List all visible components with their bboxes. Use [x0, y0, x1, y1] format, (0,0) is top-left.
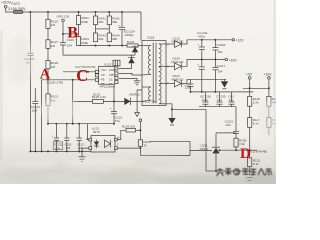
chassis ground filled triangle [224, 79, 226, 81]
wire C129 to bus55 [62, 45, 64, 55]
+15V terminal [225, 58, 228, 61]
resistor R201 [78, 12, 80, 16]
resistor R146 [267, 96, 271, 106]
node dot B area [62, 33, 64, 35]
svg-text:820k: 820k [81, 20, 88, 24]
IC U122 body [99, 66, 115, 84]
svg-text:MUR1C: MUR1C [130, 92, 142, 96]
wire R131 to ground [249, 167, 251, 175]
secondary tap wires [159, 43, 166, 45]
wire V121 anode down and right [216, 153, 250, 171]
svg-text:AZ431: AZ431 [200, 147, 209, 151]
svg-text:68k: 68k [112, 37, 117, 41]
wire bus to opto LED anode [88, 124, 89, 140]
wire feedback down [205, 109, 207, 171]
wire D122 top to bus55 [131, 55, 133, 57]
svg-text:D122: D122 [93, 92, 101, 96]
crystal part above IC [113, 60, 120, 66]
wire top bus down to transformer primary [140, 12, 142, 41]
wire x72.7 down from A line [72, 80, 74, 124]
divider rail x249.7 [249, 79, 251, 96]
wire R129 down to lower bus [139, 146, 141, 155]
svg-text:1M: 1M [51, 23, 56, 27]
svg-text:104: 104 [32, 108, 37, 112]
svg-text:104: 104 [226, 123, 231, 127]
IC right pin boxes [115, 67, 118, 70]
watermark toutiao vector glyphs [217, 168, 273, 177]
svg-text:+15V: +15V [229, 58, 238, 62]
dots on rail lines [190, 39, 217, 93]
lower feedback bus [140, 155, 190, 157]
resistor R121 on primary feed [127, 44, 138, 47]
dot aux [171, 108, 173, 110]
capacitor EC122 47u [111, 111, 117, 113]
svg-text:C1217: C1217 [216, 64, 225, 68]
svg-text:D: D [240, 146, 251, 162]
input terminal P1 [4, 6, 7, 9]
D area bus [219, 149, 257, 151]
svg-text:68k: 68k [98, 20, 103, 24]
dots on bus y123.7 [47, 123, 115, 125]
wire bus to EC128 [29, 12, 31, 53]
resistor R143 [93, 33, 97, 42]
svg-text:C1202: C1202 [216, 43, 225, 47]
capacitor EC1214 [119, 26, 125, 28]
cap C1202 line x215.4 [214, 40, 216, 48]
resistor R130 [234, 138, 238, 147]
svg-text:47µ: 47µ [115, 119, 120, 123]
svg-text:VD: VD [101, 73, 105, 77]
svg-text:+: + [110, 106, 112, 110]
resistor R144 [107, 33, 111, 42]
paper mottling [6, 6, 278, 140]
resistor R203 [76, 37, 80, 46]
svg-text:2200µ: 2200µ [125, 33, 134, 37]
transformer box [142, 41, 166, 106]
wire input to fuse [6, 8, 14, 12]
svg-text:A: A [40, 67, 51, 83]
capacitor C1212 [34, 88, 36, 101]
svg-text:68k: 68k [98, 37, 103, 41]
svg-text:GND: GND [109, 68, 115, 72]
wire D125 to +12V rail [181, 40, 232, 44]
svg-text:104: 104 [67, 43, 72, 47]
vertical x236 from sec bus [235, 107, 237, 132]
lower-left bus y123.7 [48, 123, 88, 125]
wire aux bottom tap feedback [166, 104, 206, 110]
wire R141 top [95, 12, 97, 16]
svg-text:5.1k: 5.1k [253, 162, 259, 166]
resistor R141 [93, 16, 97, 25]
top bus wire [23, 11, 141, 13]
IC left pin boxes [95, 70, 98, 73]
wire R126 down through node A [47, 69, 49, 94]
secondary winding [159, 44, 161, 104]
clamp diode D121 [134, 46, 136, 56]
wire R142-R144 [108, 25, 110, 33]
resistor R147 [248, 118, 252, 128]
wire R146-R148 [268, 106, 270, 117]
dots on D bus [219, 149, 251, 151]
dots bottom bus [95, 45, 124, 47]
bottom bus y45.5 [79, 45, 143, 47]
resistor R142 [107, 16, 111, 25]
resistor R123 [46, 94, 50, 106]
svg-text:5.1k: 5.1k [253, 122, 259, 126]
wire R123 to lower bus [47, 106, 49, 124]
ground near transformer primary [134, 80, 140, 82]
wire R122-R127 [47, 28, 49, 39]
resistor R124 [126, 128, 136, 132]
bottom texture blobs [0, 156, 280, 188]
wire terminal down [62, 22, 64, 43]
wire feedback bottom to ground node [206, 170, 216, 172]
resistor R127 [46, 40, 50, 49]
svg-text:+: + [197, 63, 199, 67]
aux winding [149, 87, 151, 100]
bus y88.3 [243, 87, 269, 89]
wire R147 to bus [249, 127, 251, 150]
wire EC1214 from top bus [121, 12, 123, 27]
svg-text:B: B [67, 25, 78, 42]
resistor R122 [47, 12, 49, 19]
wire stub to sec ground [171, 109, 173, 118]
opto transistor [105, 140, 111, 148]
bus y55 [63, 54, 135, 56]
wire R145-R147 [249, 106, 251, 117]
caps row stubs [205, 92, 207, 102]
svg-text:VCC: VCC [101, 68, 107, 72]
+12V terminal [232, 39, 234, 41]
capacitor C123 [78, 124, 80, 138]
capacitor C1217 [212, 66, 218, 68]
capacitor EC128 [27, 52, 33, 54]
wire R124 to R129 node [136, 129, 141, 131]
resistor R126 [46, 61, 50, 69]
node dot on feed line [113, 100, 115, 102]
node A dot [47, 79, 49, 81]
node dot [87, 71, 89, 73]
wire D126 to aux winding [131, 100, 142, 102]
wire opto LED cathode to ground bus [82, 148, 89, 151]
upper feedback wire [150, 140, 190, 142]
middle bus of divider [96, 28, 110, 30]
wire B node to column [63, 33, 79, 35]
svg-text:1M: 1M [51, 44, 56, 48]
wire x41.6 down [41, 80, 43, 152]
primary winding [148, 46, 150, 75]
svg-text:104: 104 [217, 70, 222, 74]
wire IC right pin2 [119, 73, 142, 75]
wire R142 top [108, 12, 110, 16]
capacitor EC121 [55, 124, 57, 138]
wire IC bottom to R125 line [113, 84, 115, 101]
capacitor C129 [60, 42, 66, 44]
svg-text:R121: R121 [127, 40, 135, 44]
wire EC128 down to bottom bus [29, 56, 31, 152]
svg-text:MUR120: MUR120 [172, 40, 184, 44]
junction dots on top bus [29, 11, 123, 13]
resistor R148 [267, 118, 271, 128]
svg-text:100µ: 100µ [202, 98, 209, 102]
scanner shading left edge [0, 30, 3, 160]
diode D122 vertical [128, 57, 134, 63]
wire node C to IC pin1 [63, 71, 100, 73]
wire IC right pin3 to ground [119, 78, 137, 80]
svg-text:1M: 1M [51, 65, 56, 69]
wire EC1214 down [121, 30, 123, 46]
svg-text:220µ: 220µ [185, 86, 192, 90]
wire opto pin4 up to R124 [117, 130, 126, 139]
resistor R131 [249, 150, 251, 158]
svg-text:MUR120: MUR120 [172, 77, 184, 81]
terminal above R129 [139, 119, 142, 122]
wire tap2 to D124 [166, 65, 175, 67]
opto pin boxes [89, 138, 92, 141]
capacitor C122b [66, 124, 68, 138]
wire x190 to TL431 [190, 149, 212, 151]
svg-text:T121: T121 [147, 36, 154, 40]
diode D126 [124, 98, 130, 105]
bottom-left ground bus [30, 150, 91, 152]
svg-text:470µ: 470µ [198, 34, 205, 38]
svg-text:F1/T2: F1/T2 [11, 2, 20, 6]
wire aux return to small gnd [137, 90, 142, 113]
wire R127-R126 [47, 48, 49, 60]
lower bus y106.7 [199, 106, 236, 108]
D area ground symbol [245, 174, 254, 176]
wire IC pin VCC right to D122 clamp [119, 63, 132, 68]
wire D124 to +15V rail [181, 60, 225, 67]
opto LED [96, 140, 98, 142]
terminal OPS129 [62, 19, 65, 22]
wire R201-R203 [78, 25, 80, 37]
svg-text:817C: 817C [93, 130, 101, 134]
resistor R125 [93, 99, 104, 103]
svg-text:R124 100: R124 100 [122, 124, 135, 128]
svg-text:820k: 820k [81, 41, 88, 45]
svg-text:1.2k: 1.2k [253, 100, 259, 104]
secondary ground filled triangle [168, 118, 175, 124]
fuse F1 [13, 11, 23, 14]
wire bus to R123 column [47, 123, 49, 125]
optocoupler U121 body [91, 136, 115, 153]
wire D123 to rail3 [181, 79, 226, 83]
capacitor C120 220u [190, 79, 192, 84]
svg-text:103: 103 [65, 146, 70, 150]
capacitor C1202 [212, 47, 218, 49]
svg-text:NL20 20H: NL20 20H [144, 99, 157, 103]
primary ground symbol [81, 151, 83, 156]
wire R141-R143 [95, 25, 97, 33]
wire node A horizontal [42, 79, 100, 81]
wire opto pin2 to R129 foot [117, 147, 140, 149]
wire R125 feed line [73, 100, 93, 102]
svg-text:U122: U122 [104, 62, 112, 66]
wire R125 to D122b [103, 100, 124, 102]
wire V121 ref [216, 132, 236, 134]
svg-text:CS: CS [109, 78, 113, 82]
svg-text:104: 104 [217, 50, 222, 54]
resistor R145 [248, 96, 252, 106]
svg-text:47µ: 47µ [229, 98, 234, 102]
bus y123.7 right segment [88, 123, 115, 125]
svg-text:+: + [197, 43, 199, 47]
wire R148 down [268, 127, 270, 135]
svg-text:MUR120: MUR120 [172, 60, 184, 64]
wire tap3 to D123 [166, 83, 175, 85]
svg-text:7k: 7k [143, 143, 147, 147]
svg-text:0.2 5V4(4B): 0.2 5V4(4B) [251, 150, 268, 154]
svg-text:RT: RT [101, 82, 105, 86]
svg-text:GT: GT [109, 82, 113, 86]
svg-text:+10V: +10V [264, 72, 273, 76]
transformer core lines [152, 43, 154, 104]
wire R130 to bus [235, 147, 237, 150]
svg-text:+: + [118, 23, 120, 27]
wire corner x190 [189, 141, 191, 155]
svg-text:OPP: OPP [109, 73, 115, 77]
svg-text:68k: 68k [112, 20, 117, 24]
small ground arrow [135, 113, 140, 117]
wire tap1 to D125 [166, 43, 175, 45]
svg-text:C: C [76, 66, 88, 85]
rail1 filter line x201.8 [201, 40, 203, 47]
resistor R129 [138, 140, 142, 147]
scanner shading right edge [274, 0, 277, 184]
wire C1212 to bottom bus [34, 104, 36, 152]
svg-text:OPS 129: OPS 129 [57, 15, 70, 19]
svg-text:+12V: +12V [236, 39, 245, 43]
svg-text:47µ: 47µ [55, 146, 60, 150]
svg-text:FB: FB [101, 78, 105, 82]
secondary ground bus [191, 91, 254, 93]
svg-text:+5V: +5V [246, 72, 253, 76]
divider rail x268.9 [268, 79, 270, 96]
dots on ground bus [29, 150, 83, 152]
